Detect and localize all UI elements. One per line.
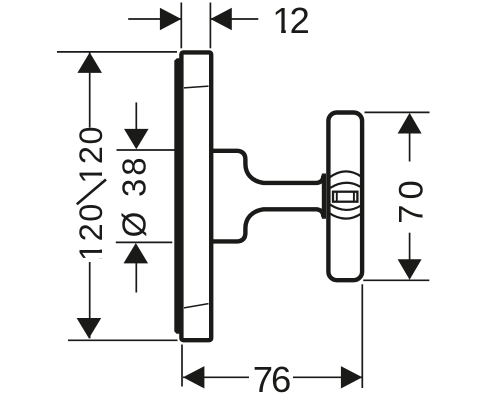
svg-text:120: 120 xyxy=(73,125,109,184)
grip lens: small bottom arc xyxy=(330,205,361,210)
grip lens: big bottom arc xyxy=(329,213,362,219)
dim 120/120: lower segment xyxy=(89,262,91,338)
dim 12: left line xyxy=(128,18,181,20)
svg-text:12: 12 xyxy=(272,0,308,41)
dim 12: right arrow xyxy=(210,8,231,30)
dim Ø38: upper segment xyxy=(135,102,137,129)
dim 120/120: bottom arrow xyxy=(77,318,102,338)
dim 120/120: top extension line xyxy=(57,51,177,53)
dim 70: bottom extension line xyxy=(363,279,429,281)
dim 76: right line xyxy=(293,376,362,378)
dim 120/120: upper segment xyxy=(89,52,91,127)
dim 76: right arrow xyxy=(341,366,362,388)
dim 120/120: label slash xyxy=(77,180,106,205)
white patches: trim foot serifs of "1" glyphs to match target font xyxy=(274,29,281,33)
plate top chamfer line xyxy=(184,86,209,88)
dim 120/120: top arrow xyxy=(77,52,102,73)
dim 12: left arrow xyxy=(160,8,181,30)
svg-text:Ø 38: Ø 38 xyxy=(116,155,153,238)
svg-text:76: 76 xyxy=(253,359,290,400)
grip hub inner right line xyxy=(353,192,355,202)
dim 70: top extension line xyxy=(365,111,430,113)
dim 120/120: bottom extension line xyxy=(68,339,178,341)
dim Ø38: top arrow (down) xyxy=(124,129,149,149)
dim 70: upper segment xyxy=(409,133,411,162)
handle bar (rounded rect outline) xyxy=(328,113,362,281)
handle bell (trumpet profile) top xyxy=(211,151,323,183)
svg-text:70: 70 xyxy=(392,175,430,223)
dim 76: left line xyxy=(183,376,249,378)
dim 76: right extension line xyxy=(361,284,363,388)
grip lens: big top arc xyxy=(329,171,362,177)
dim Ø38: lower segment xyxy=(135,263,137,293)
dim 70: lower segment xyxy=(409,233,411,261)
grip hub rectangle xyxy=(333,192,357,202)
svg-text:120: 120 xyxy=(73,202,109,261)
plate back strip (flange) xyxy=(174,58,181,334)
dim 70: bottom arrow (down) xyxy=(398,259,422,280)
dim Ø38: bottom arrow (up) xyxy=(124,243,149,263)
plate bottom chamfer line xyxy=(184,304,209,308)
dim 12: left extension line xyxy=(180,3,182,49)
dim Ø38: top extension line xyxy=(117,149,175,151)
dim 12: right extension line xyxy=(209,3,211,49)
dim 12: right line xyxy=(210,18,258,20)
dim 76: left extension line xyxy=(181,345,183,387)
grip lens: small top arc xyxy=(330,183,361,188)
dim Ø38: bottom extension line xyxy=(116,241,173,243)
dim 70: top arrow (up) xyxy=(398,113,422,134)
grip hub inner left line xyxy=(336,192,338,202)
escutcheon plate P1 (rounded rect outline) xyxy=(181,52,211,340)
flange face at handle xyxy=(322,174,326,219)
dim 76: left arrow xyxy=(183,366,204,388)
handle bell (trumpet profile) bottom xyxy=(211,209,323,241)
